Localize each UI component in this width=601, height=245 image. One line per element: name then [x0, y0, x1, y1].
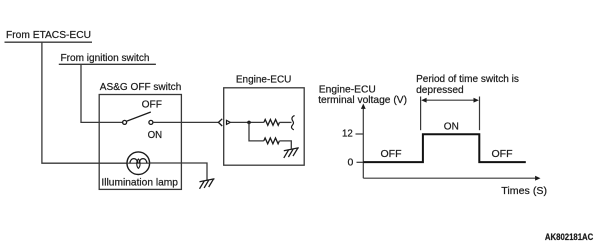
svg-text:Times (S): Times (S) — [501, 185, 547, 197]
graph: waveform — [363, 134, 526, 162]
svg-text:AS&G OFF switch: AS&G OFF switch — [100, 81, 182, 93]
Engine-ECU box — [224, 88, 305, 165]
graph: X axis — [363, 177, 537, 179]
graph: Y axis — [362, 107, 364, 179]
wire lamp to ground — [150, 163, 207, 180]
svg-text:ON: ON — [444, 121, 459, 133]
ground G2 (Engine-ECU internal) — [284, 148, 299, 158]
svg-text:Illumination lamp: Illumination lamp — [101, 176, 178, 188]
ground G1 (below lamp wire) — [200, 179, 215, 189]
wire R1 to break — [280, 121, 292, 123]
svg-text:12: 12 — [342, 128, 353, 140]
connector chevron (harness side) — [218, 119, 222, 126]
wire node down to R2 — [249, 122, 264, 140]
switch S1 right terminal — [149, 120, 153, 124]
wire connector to node — [230, 121, 264, 123]
svg-text:terminal voltage (V): terminal voltage (V) — [318, 94, 407, 106]
resistor R2 (lower) — [264, 138, 280, 144]
resistor R1 (upper) — [264, 120, 280, 126]
switch S1 arm — [127, 112, 151, 121]
wire R2 to ground — [279, 141, 291, 149]
svg-text:OFF: OFF — [492, 148, 513, 160]
svg-text:depressed: depressed — [416, 84, 464, 96]
graph: 12 tick — [356, 133, 364, 135]
svg-text:OFF: OFF — [381, 148, 402, 160]
connector triangle (ECU side) — [227, 120, 231, 124]
svg-text:AK802181AC: AK802181AC — [545, 232, 594, 242]
svg-text:Engine-ECU: Engine-ECU — [236, 74, 292, 86]
graph: 0 tick — [357, 161, 364, 163]
graph: period span right bar — [479, 97, 481, 131]
svg-text:0: 0 — [348, 156, 354, 168]
wire ignition switch feed (down then right to switch) — [81, 64, 123, 122]
junction node — [247, 121, 251, 125]
graph: period span left bar — [420, 97, 422, 131]
svg-text:From ETACS-ECU: From ETACS-ECU — [6, 29, 91, 41]
illumination lamp L1 — [127, 152, 150, 175]
node From ignition switch label — [59, 52, 156, 65]
wire switch to Engine-ECU connector — [153, 121, 218, 123]
wire break squiggle — [291, 116, 294, 130]
svg-text:ON: ON — [148, 129, 163, 141]
graph: period span double arrow — [423, 99, 477, 101]
node From ETACS-ECU label — [5, 29, 93, 42]
svg-text:From ignition switch: From ignition switch — [61, 52, 150, 64]
switch S1 left terminal — [123, 120, 127, 124]
svg-text:OFF: OFF — [142, 98, 162, 110]
AS&G OFF switch box — [99, 95, 181, 190]
wire ETACS-ECU feed (down then right to lamp) — [42, 42, 127, 163]
